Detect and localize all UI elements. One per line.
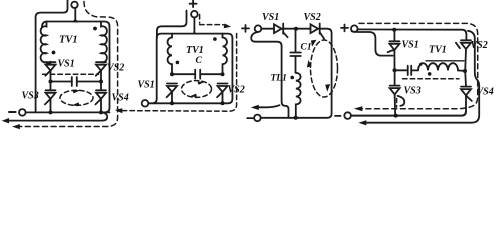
transformer core line [426,60,464,62]
svg-text:VS1: VS1 [58,59,75,70]
thyristor VS1 [45,62,55,82]
wire right side loop [261,29,332,118]
ellipse arrow top-left [311,40,317,47]
dashed arrow right [224,24,231,29]
circulating current ellipse tall [311,40,338,97]
thyristor VS4 [461,71,472,111]
dashed arrow head [354,106,363,111]
wire from top terminal down [251,32,288,118]
dashed current path inner [43,73,99,75]
svg-text:C: C [196,56,203,66]
node bottom right [221,101,225,105]
dashed path top [200,15,230,27]
label minus [9,111,16,113]
polarity dot TL1 [290,76,294,80]
label minus [247,117,253,119]
polarity dot upper [419,63,422,66]
wire input [261,28,274,30]
inductor TL1 winding [296,73,301,118]
wire bottom [351,111,466,115]
thyristor VS1 [167,84,177,104]
wire mid with capacitor [172,73,223,75]
wire transformer top [42,22,110,113]
polarity dot left winding [52,51,56,55]
capacitor C plates [72,77,77,86]
svg-text:VS2: VS2 [471,40,488,51]
current path dashed loop [359,23,478,108]
svg-text:VS3: VS3 [22,91,39,102]
dashed loop right-bottom [122,34,237,112]
node right mid [99,80,103,84]
circulating current ellipse [60,90,93,105]
wire top [358,29,467,39]
polarity dot right winding [93,27,97,31]
svg-text:C1: C1 [301,43,312,53]
wire branch from terminal [352,31,393,55]
svg-text:TL1: TL1 [271,74,287,84]
node left mid [49,80,53,84]
wire capacitor to coil [411,69,418,71]
node mid left [393,68,397,72]
terminal top (circle) [191,11,198,18]
terminal top (circle) [351,25,358,32]
label minus [335,115,341,117]
dashed arrow head [12,124,20,129]
svg-text:TV1: TV1 [59,35,78,46]
outer loop wire [148,34,232,104]
node mid right [463,69,467,73]
svg-text:VS2: VS2 [107,63,124,74]
label plus [190,0,197,7]
label plus [242,25,249,32]
node bottom [294,116,298,120]
capacitor C1 plates [290,53,300,57]
svg-text:VS1: VS1 [262,12,279,23]
current path dashed loop [20,2,118,127]
ellipse arrow bottom [325,84,330,92]
current path arrow solid [8,113,107,121]
thyristor VS2 [311,24,325,39]
capacitor C1 lead lower [295,57,297,73]
inductor TV1 winding horizontal [418,63,464,71]
thyristor VS1 [388,30,400,70]
thyristor VS3 [45,82,56,113]
thyristor VS1 [274,24,288,38]
terminal top (circle) [71,2,77,8]
node bottom right [99,110,103,114]
wire bottom [26,111,110,113]
wire to capacitor [395,69,407,71]
node junction top [192,32,197,34]
circulating current ellipse [182,81,212,98]
wire upper lead [157,11,187,39]
node junction top [392,28,396,32]
ellipse arrow left up [307,60,311,68]
dashed inner segment [403,78,460,80]
wire terminal stem [193,18,195,34]
terminal bottom (circle) [19,109,26,116]
svg-text:VS1: VS1 [402,40,419,51]
terminal top (circle) [255,25,262,32]
svg-text:TV1: TV1 [429,45,447,56]
transformer TV1 right winding [101,22,107,63]
current path arrow [259,105,280,107]
thyristor VS2 [96,62,106,81]
wire [283,28,310,30]
thyristor VS4 [95,82,106,113]
terminal bottom (circle) [254,115,261,122]
node right [221,72,225,76]
ellipse arrow right [198,81,207,84]
capacitor C1 lead [295,31,297,52]
wire terminal stem [74,8,76,21]
transformer TV1 left winding [41,22,51,64]
terminal bottom (circle) [344,112,351,119]
capacitor plates [408,66,412,75]
terminal bottom (circle) [142,100,149,107]
node junction top [73,20,78,22]
ellipse arrow right [73,90,82,93]
node bottom [394,114,398,118]
node left [170,72,174,76]
svg-text:VS2: VS2 [304,12,321,23]
polarity dot left [176,61,180,65]
wire mid with capacitor [51,81,101,83]
label plus [341,25,348,32]
node bottom left [49,110,53,114]
thyristor VS2 [456,40,471,71]
thyristor VS2 [217,84,227,104]
wire primary lead exiting top [36,0,68,112]
svg-text:VS3: VS3 [404,86,421,97]
current path arrow solid [366,31,479,123]
transformer TV1 left winding [168,34,172,75]
svg-text:TV1: TV1 [186,45,204,56]
polarity dot right [213,37,217,41]
svg-text:VS1: VS1 [138,80,155,91]
dashed arrow head left [115,108,123,113]
ellipse arrow left [188,94,197,97]
node bottom left [170,101,174,105]
svg-text:VS4: VS4 [112,93,129,104]
node junction [294,27,298,31]
polarity dot [428,72,432,76]
dashed stub [396,99,398,108]
thyristor VS3 [390,70,405,115]
transformer TV1 right winding [222,34,226,75]
ellipse arrow left [71,102,80,105]
capacitor plates [195,70,200,79]
